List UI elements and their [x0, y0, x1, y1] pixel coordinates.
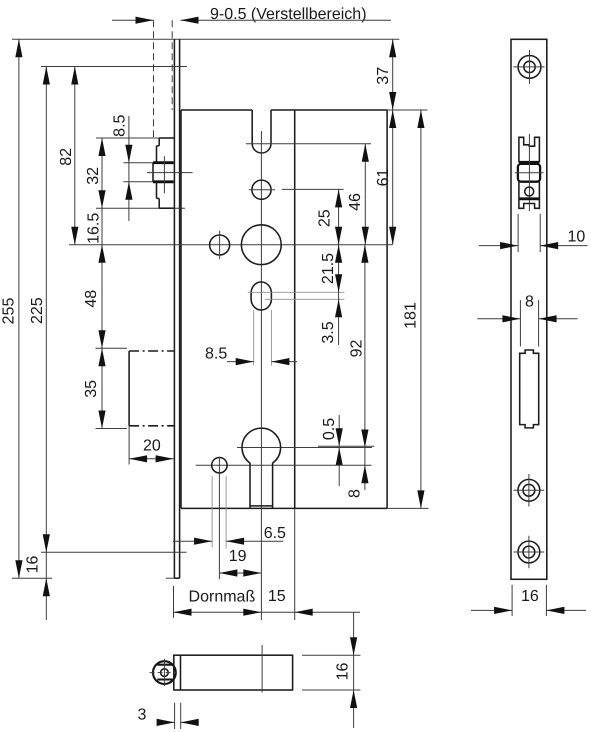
extension below inner fold line — [294, 508, 296, 620]
upper guide hole cross line — [249, 189, 275, 191]
svg-text:46: 46 — [347, 193, 364, 211]
bottom view roller centre cross — [150, 672, 178, 674]
dimension 20 bolt throw — [128, 426, 130, 465]
bottom view cylinder centre line — [261, 645, 263, 693]
deadbolt top edge dash-dot — [129, 350, 174, 352]
dimension column 32 16.5 48 35 — [101, 138, 103, 429]
oval hole side extension lines — [253, 310, 255, 366]
vertical centre line of lock — [260, 131, 262, 620]
extension line upper guide hole — [282, 188, 344, 190]
dashed adjustment line at roller face — [153, 20, 155, 137]
svg-text:15: 15 — [268, 588, 286, 605]
top screw centre line — [41, 66, 187, 68]
dimension 15 — [261, 611, 294, 613]
top slot rounded bottom — [252, 144, 271, 153]
svg-text:6.5: 6.5 — [264, 525, 286, 542]
lower small hole — [212, 458, 227, 473]
latch fixing pin hole — [525, 187, 534, 196]
dimension 16 front view extension lines — [511, 585, 513, 616]
bottom view roller — [153, 661, 176, 684]
svg-text:0.5: 0.5 — [321, 418, 338, 440]
svg-text:35: 35 — [83, 380, 100, 398]
oval fixing hole — [251, 282, 271, 310]
svg-text:181: 181 — [403, 302, 420, 329]
bottom screw cross lines — [528, 536, 530, 569]
svg-text:8: 8 — [525, 294, 534, 311]
svg-text:16: 16 — [521, 588, 539, 605]
latch step upper — [157, 145, 160, 147]
extension of case bottom edge — [387, 507, 428, 509]
lock case left edge — [180, 110, 182, 508]
svg-text:10: 10 — [568, 229, 586, 246]
lock case right edge — [386, 110, 388, 508]
svg-text:3: 3 — [138, 707, 147, 724]
dimension 37 — [392, 39, 394, 110]
svg-text:92: 92 — [349, 340, 366, 358]
svg-text:Dornmaß: Dornmaß — [189, 589, 256, 606]
bottom view case outline — [174, 655, 293, 690]
dimension 3 — [157, 721, 175, 723]
svg-text:48: 48 — [83, 290, 100, 308]
dimension 6.5 — [173, 540, 212, 542]
faceplate bottom edge — [174, 577, 179, 579]
dimension 9-0.5 line left segment with right arrow — [112, 19, 154, 21]
dimension 255 — [18, 39, 20, 578]
cylinder centre line — [237, 447, 372, 449]
svg-text:61: 61 — [375, 169, 392, 187]
latch step lower — [156, 182, 158, 199]
follower centre line — [69, 244, 392, 246]
svg-text:3.5: 3.5 — [320, 321, 337, 343]
svg-text:20: 20 — [143, 438, 161, 455]
roller latch top edge with extension — [96, 137, 159, 139]
extension line for Dornmass at faceplate — [173, 586, 175, 618]
latch cutout upper outline — [519, 137, 540, 162]
svg-text:21.5: 21.5 — [320, 253, 337, 284]
svg-text:82: 82 — [58, 148, 75, 166]
svg-text:25: 25 — [317, 209, 334, 227]
dimension 82 — [74, 67, 76, 245]
latch body left edge upper — [158, 138, 160, 146]
svg-text:16: 16 — [335, 663, 352, 681]
bottom fixing screw hole — [518, 541, 540, 563]
profile cylinder hole — [242, 428, 281, 508]
dimension 10 extension lines — [517, 214, 519, 252]
top screw cross lines — [529, 50, 531, 84]
cylinder slot closing line — [250, 505, 273, 507]
extension line bolt top — [96, 347, 128, 349]
svg-text:37: 37 — [375, 67, 392, 85]
roller block bottom edge — [153, 180, 174, 183]
top slot right wall — [270, 110, 272, 144]
extension line bottom of faceplate — [12, 577, 52, 579]
lower screw hole centre line — [196, 464, 372, 466]
dimension 46 — [364, 144, 366, 245]
bottom view roller housing bottom — [157, 678, 174, 680]
extension lines roller — [123, 162, 153, 164]
upper small hole centre line — [219, 231, 221, 259]
oval hole upper reference line — [248, 291, 345, 293]
dimension 8 front view — [477, 318, 520, 320]
latch cutout upper thick edge — [519, 161, 540, 164]
faceplate right edge — [179, 39, 181, 578]
dimension 8.5 roller height — [128, 116, 130, 221]
middle fixing screw hole — [518, 479, 540, 501]
dimension 16 bottom view extension lines — [302, 654, 360, 656]
dimension 61 — [392, 110, 394, 245]
lock case top edge left of slot — [181, 109, 252, 111]
dimension 8.5 oval width — [227, 361, 254, 363]
dimension 10 — [479, 245, 518, 247]
extension of case top edge — [387, 109, 427, 111]
dimension 8 below cylinder — [364, 448, 366, 491]
bottom screw centre line — [41, 551, 187, 553]
top slot left wall — [251, 110, 253, 144]
bottom view roller housing top — [157, 664, 174, 666]
deadbolt face edge — [128, 351, 130, 426]
deadbolt slot front view — [520, 350, 539, 428]
extension line slot bottom — [246, 143, 371, 145]
middle screw cross lines — [528, 474, 530, 507]
latch cutout lower outline — [519, 182, 540, 208]
upper guide hole — [252, 180, 271, 199]
svg-text:16: 16 — [25, 556, 42, 574]
oval hole lower reference line — [265, 298, 345, 300]
dimension 9-0.5 line right segment with left arrow — [181, 19, 392, 21]
deadbolt bottom edge dash-dot — [129, 425, 174, 427]
svg-text:8: 8 — [347, 489, 364, 498]
dimension 25 — [338, 189, 340, 345]
roller block top edge — [153, 161, 174, 164]
dimension 21.5 — [335, 245, 342, 263]
svg-text:225: 225 — [29, 297, 46, 324]
faceplate top edge and extension line — [12, 38, 399, 40]
dimension 19 — [219, 572, 261, 574]
svg-text:32: 32 — [85, 167, 102, 185]
dimension 3 extension lines — [174, 703, 176, 729]
dimension 92 — [364, 245, 366, 448]
dimension 3.5 — [335, 299, 342, 317]
cylinder offset reference line — [318, 445, 374, 447]
top fixing screw hole — [518, 56, 541, 79]
dimension 16 front view — [471, 609, 512, 611]
latch centre cross front view — [515, 172, 544, 174]
dimension 8 extension lines front view — [519, 300, 521, 347]
faceplate left edge — [173, 39, 175, 578]
extension line bolt bottom — [96, 428, 128, 430]
dashed adjustment line at faceplate — [171, 20, 173, 110]
latch body left edge lower — [158, 198, 160, 208]
roller latch bottom edge — [159, 207, 174, 209]
dimension 16 arrow and label — [43, 578, 50, 596]
follower hole — [241, 225, 281, 265]
bottom view faceplate inner line — [180, 655, 182, 690]
lock case bottom edge — [181, 507, 387, 509]
svg-text:19: 19 — [229, 548, 247, 565]
dimension 181 — [420, 110, 422, 508]
dimension Dornmass — [174, 611, 262, 613]
latch centre cross — [147, 172, 193, 174]
lower small hole centre line — [218, 457, 220, 579]
lower small hole side extension lines — [211, 476, 213, 547]
face plate front view outline — [511, 39, 547, 579]
latch cutout lower thick edge — [519, 197, 540, 200]
case inner fold line — [294, 110, 296, 508]
dimension 0.5 — [338, 415, 340, 486]
svg-text:8.5: 8.5 — [112, 114, 129, 136]
svg-text:255: 255 — [1, 298, 18, 325]
upper small hole — [210, 235, 230, 255]
roller block front edge — [152, 163, 154, 182]
extension line latch bottom — [96, 207, 185, 209]
bottom view roller pin — [161, 669, 169, 677]
lock case top edge right of slot — [271, 109, 387, 111]
dimension 225 and 16 line — [45, 67, 47, 621]
dimension 16 bottom view — [353, 612, 355, 728]
svg-text:16.5: 16.5 — [86, 213, 103, 244]
svg-text:8.5: 8.5 — [205, 346, 227, 363]
latch roller front view — [518, 164, 540, 182]
